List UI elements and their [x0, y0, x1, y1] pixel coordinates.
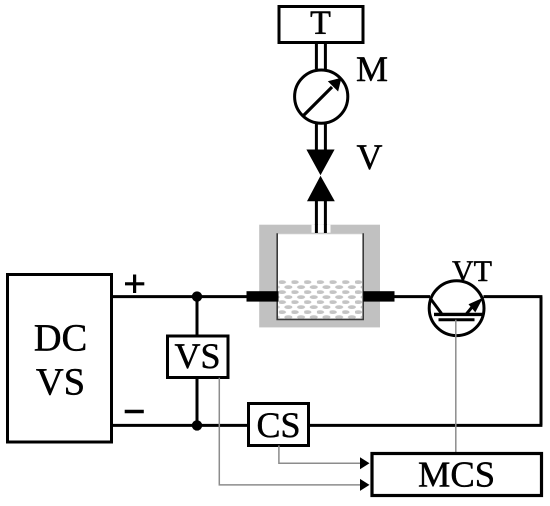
label VT	[452, 261, 491, 281]
junction node on top wire	[192, 291, 202, 301]
electrolytic cell outer gray wall	[259, 225, 380, 328]
label M	[357, 57, 387, 81]
box T (temperature sensor)	[279, 7, 363, 43]
box DC VS (power source)	[8, 275, 112, 443]
wire: right vertical	[540, 297, 543, 426]
electrolyte liquid with bubbles	[278, 280, 362, 319]
tube from gauge to valve	[316, 124, 325, 150]
left electrode	[247, 291, 279, 301]
tube from T to gauge M	[316, 43, 325, 69]
box VS (voltage sensor)	[168, 336, 229, 378]
arrowhead CS to MCS	[360, 457, 370, 469]
sense line from VS to MCS	[219, 378, 361, 485]
label V	[357, 145, 382, 169]
wire: transistor to right corner	[484, 295, 543, 298]
wire: VS vertical tap from top wire	[196, 297, 199, 337]
plus sign	[125, 275, 144, 294]
box MCS (microcontroller system)	[372, 454, 542, 496]
sense line from CS to MCS	[279, 446, 361, 464]
minus sign	[125, 410, 144, 413]
valve V	[306, 150, 334, 202]
transistor VT	[429, 281, 484, 336]
arrowhead VS to MCS	[360, 479, 370, 491]
tube passing through cell lid	[316, 224, 325, 233]
wire: positive top wire from DC VS to left electrode	[112, 295, 247, 298]
wire: bottom right segment to CS	[309, 424, 543, 427]
box CS (current sensor)	[249, 404, 309, 446]
cell inner vessel	[277, 234, 363, 320]
junction node on bottom wire	[192, 420, 202, 430]
control line from VT gate to MCS	[455, 320, 457, 453]
tube from valve into cell	[316, 201, 325, 234]
wire: bottom left segment CS to DC VS	[112, 424, 249, 427]
wire: right electrode to transistor	[394, 295, 430, 298]
right electrode	[363, 291, 394, 301]
gauge M (manometer)	[295, 70, 348, 123]
wire: VS vertical tap to bottom wire	[196, 377, 199, 425]
